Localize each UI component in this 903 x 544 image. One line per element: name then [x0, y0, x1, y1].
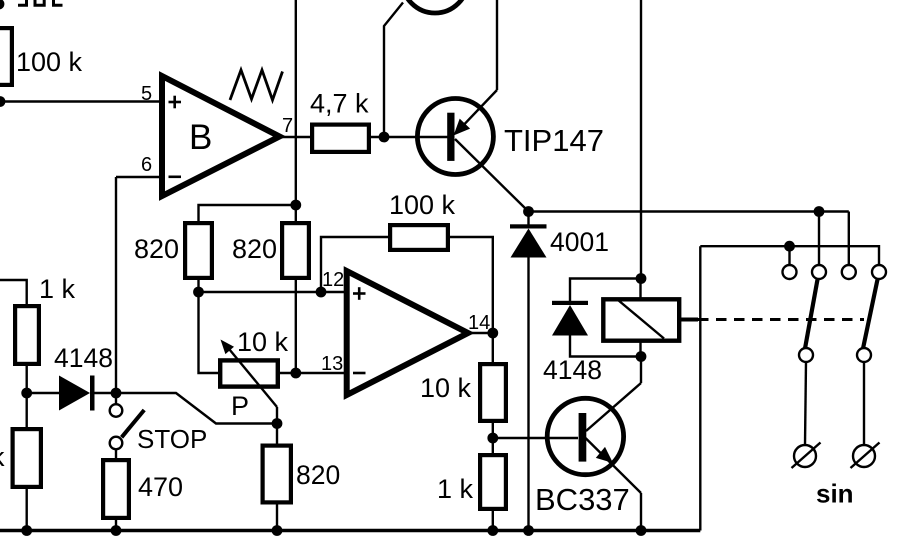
wire: 470 to rail — [115, 518, 117, 531]
terminal B (circle with slash) — [851, 443, 880, 469]
svg-text:14: 14 — [468, 312, 490, 334]
svg-text:4,7 k: 4,7 k — [310, 89, 369, 119]
diode 4148 relay — [543, 279, 641, 386]
resistor 820 third — [263, 446, 341, 503]
wire: bus to contact 3 — [848, 212, 850, 267]
transistor Q BC337 — [535, 383, 641, 517]
wire: 4001 to rail — [527, 258, 529, 531]
node: diode anode — [21, 388, 32, 399]
svg-text:470: 470 — [138, 472, 183, 502]
svg-text:4001: 4001 — [550, 227, 609, 257]
resistor 100 k feedback — [389, 190, 456, 250]
wire: relay armature link solid — [681, 318, 698, 322]
wire: stop switch to 470 — [115, 449, 117, 460]
node: pin 12 feedback junction — [316, 287, 327, 298]
wire: left input to 1k — [0, 280, 27, 306]
svg-text:k: k — [0, 442, 5, 472]
wire: to op-amp pin 12 — [199, 291, 347, 293]
svg-text:BC337: BC337 — [535, 482, 630, 517]
resistor 820 second — [232, 223, 309, 278]
wire: sin feed to contact 1 — [788, 246, 790, 266]
resistor 4,7 k — [310, 89, 369, 152]
wire: vertical from top to 820 node — [295, 0, 297, 221]
svg-text:1 k: 1 k — [437, 474, 474, 504]
node: switch common bus — [814, 206, 825, 217]
node: op-amp B pin 5 input — [0, 96, 5, 107]
wire: pot wiper down — [276, 407, 278, 424]
transistor upper (partial circle) — [402, 0, 468, 13]
svg-text:12: 12 — [322, 269, 344, 291]
square-wave icon — [18, 0, 63, 5]
node: rail 1k left — [21, 525, 32, 536]
wire: sin feed down to rail — [699, 246, 701, 530]
switch lever B — [863, 280, 878, 349]
node: sin feed — [784, 241, 795, 252]
wire: pivot A to terminal — [805, 362, 806, 445]
switch contact 2 — [812, 265, 826, 279]
svg-text:5: 5 — [141, 83, 152, 105]
svg-text:6: 6 — [141, 154, 152, 176]
potentiometer P 10 k — [220, 327, 288, 421]
node: rail 470 — [111, 525, 122, 536]
wire: 4,7k to TIP147 base — [369, 136, 448, 138]
switch contact 4 — [872, 265, 886, 279]
wire: base junction up to upper transistor — [384, 3, 403, 138]
node: wiper junction — [272, 418, 283, 429]
switch pivot A — [799, 348, 813, 362]
wire: relay armature link dashed — [698, 318, 864, 321]
resistor 470 — [103, 460, 183, 518]
wire: feedback left to pin 12 — [321, 237, 388, 292]
wire: pot right to pin 13 — [280, 372, 346, 374]
wire: 10k to 1k — [492, 423, 494, 455]
terminal A (circle with slash) — [792, 443, 821, 469]
node: relay bottom — [636, 351, 647, 362]
node: diode cathode / stop net — [111, 388, 122, 399]
svg-text:4148: 4148 — [543, 355, 602, 385]
resistor 1 k left — [15, 274, 75, 364]
switch pivot B — [857, 348, 871, 362]
relay coil — [603, 279, 679, 357]
node: output — [487, 328, 498, 339]
node: rail 1k right — [487, 525, 498, 536]
op-amp second — [347, 271, 468, 395]
switch contact 1 — [783, 265, 797, 279]
svg-text:820: 820 — [232, 234, 277, 264]
wire: stop net to pot wiper net — [116, 393, 277, 424]
svg-text:P: P — [231, 391, 249, 421]
wire: 1k down through node — [26, 364, 28, 429]
svg-text:10 k: 10 k — [237, 327, 289, 357]
svg-text:TIP147: TIP147 — [504, 123, 604, 158]
op-amp B — [162, 76, 280, 196]
wire: 1k to ground rail — [492, 509, 494, 531]
ground rail — [0, 529, 700, 532]
node: rail BC337 emitter — [636, 525, 647, 536]
svg-text:100 k: 100 k — [389, 190, 456, 220]
wire: bus to contact 2 — [818, 212, 820, 267]
wire: TIP147 emitter up — [496, 0, 498, 90]
wire: BC337 emitter to rail — [640, 493, 642, 531]
svg-text:sin: sin — [816, 479, 854, 509]
node at top-left corner — [0, 0, 4, 9]
wire: lower resistor to rail — [26, 487, 28, 531]
node: pin 13 junction — [290, 368, 301, 379]
wire: output pin 14 — [468, 332, 493, 334]
switch lever A — [805, 280, 818, 349]
wire: feedback right to output — [450, 237, 493, 333]
svg-text:B: B — [189, 118, 212, 157]
svg-text:100 k: 100 k — [16, 47, 83, 77]
node: TIP147 collector / 4001 anode — [523, 206, 534, 217]
wire: 820 top link — [199, 205, 296, 221]
svg-text:1 k: 1 k — [39, 274, 76, 304]
node: non-inverting net left — [193, 287, 204, 298]
wire: 820 first bottom — [197, 280, 199, 292]
wire: 820 second bottom to pin 13 net — [295, 280, 297, 373]
svg-text:4148: 4148 — [54, 343, 113, 373]
resistor 100 k (top-left, partial) — [0, 28, 83, 85]
resistor k left lower (partial label) — [0, 429, 41, 487]
node: relay top — [636, 273, 647, 284]
triangle-wave icon — [230, 70, 283, 100]
diode 4148 left — [27, 343, 116, 411]
svg-text:820: 820 — [296, 460, 340, 490]
wire: sin feed horizontal — [700, 246, 879, 266]
svg-text:7: 7 — [282, 115, 293, 137]
wire: wiper net down to 820 — [276, 424, 278, 446]
resistor 820 first — [134, 223, 212, 278]
node: base junction — [379, 132, 390, 143]
wire: output down to 10k — [492, 333, 494, 364]
wire: feedback vertical to diode node — [115, 177, 117, 393]
wire: base of BC337 — [493, 437, 578, 439]
svg-text:820: 820 — [134, 234, 179, 264]
wire: from top to relay — [640, 0, 642, 279]
svg-text:10 k: 10 k — [420, 373, 472, 403]
svg-text:STOP: STOP — [137, 424, 207, 454]
node above 820 resistors — [290, 200, 301, 211]
wire: 820 to rail — [276, 502, 278, 531]
wire: pin 6 — [116, 176, 160, 178]
node: rail 4001 — [523, 525, 534, 536]
node: BC337 base junction — [487, 433, 498, 444]
switch STOP — [110, 393, 208, 454]
diode 4001 — [510, 212, 609, 258]
wire: input to pin 5 — [0, 100, 160, 102]
wire: collector bus to switches — [529, 210, 849, 212]
wire: BC337 collector up to relay — [640, 357, 642, 384]
resistor 10 k right — [420, 364, 506, 421]
transistor Q TIP147 — [417, 90, 604, 212]
resistor 1 k right — [437, 455, 506, 509]
wire: pin 7 to resistor 4,7k — [280, 136, 313, 138]
node: rail 820 — [272, 525, 283, 536]
switch contact 3 — [842, 265, 856, 279]
wire: pivot B to terminal — [863, 362, 865, 445]
wire: down to potentiometer left — [199, 292, 219, 373]
svg-text:13: 13 — [321, 353, 343, 375]
